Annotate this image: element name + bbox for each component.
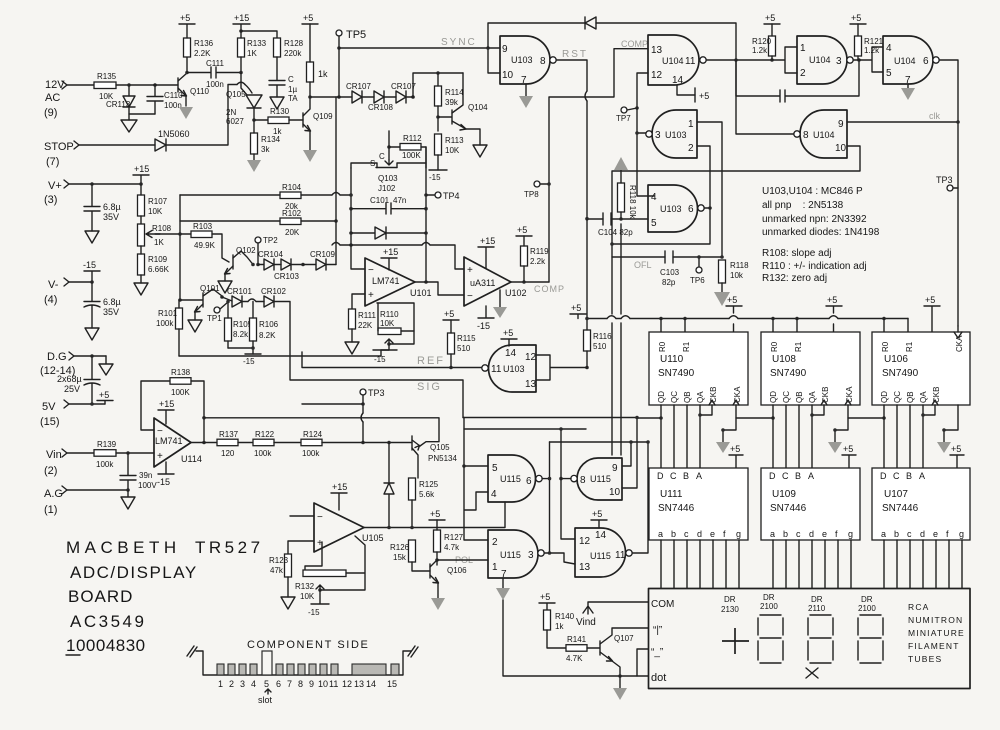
svg-text:U104: U104: [813, 130, 835, 140]
svg-text:U102: U102: [505, 288, 527, 298]
power +5 (U108 Vcc): [826, 295, 842, 332]
svg-text:QD: QD: [769, 391, 778, 403]
wire long vertical TP5 column (SIG source): [335, 97, 337, 265]
svg-text:4: 4: [651, 192, 657, 203]
svg-text:e: e: [822, 529, 827, 539]
counter U110 SN7490: [649, 332, 748, 405]
wire U103d pins 12/13: [536, 355, 587, 380]
svg-text:5: 5: [651, 218, 657, 229]
wire bottom row to uA311 +: [340, 245, 464, 269]
diode CR103: [274, 259, 299, 281]
wire + input: [352, 294, 365, 309]
wire U115a pin4: [464, 466, 488, 540]
nand U103b (mirrored): [646, 110, 697, 158]
svg-text:6: 6: [688, 204, 694, 215]
resistor R104 20k: [280, 183, 302, 211]
capacitor C110 100n: [147, 85, 183, 114]
wire U106 outputs to U107: [884, 405, 923, 468]
svg-text:+5: +5: [851, 13, 861, 23]
wire U102 output: [511, 281, 549, 283]
resistor R138 100K: [170, 368, 191, 397]
svg-text:QC: QC: [893, 391, 902, 403]
wire R101 bottom loop: [179, 355, 381, 357]
svg-text:U115: U115: [590, 551, 611, 561]
svg-text:5: 5: [492, 463, 498, 474]
svg-text:8: 8: [580, 475, 586, 486]
svg-text:A: A: [919, 471, 925, 481]
svg-text:REF: REF: [417, 355, 445, 367]
svg-text:2: 2: [229, 679, 234, 689]
svg-text:U103: U103: [511, 55, 533, 65]
svg-text:12: 12: [651, 70, 663, 81]
svg-text:82p: 82p: [662, 278, 676, 287]
svg-text:1: 1: [492, 562, 498, 573]
svg-text:c: c: [907, 529, 912, 539]
svg-text:U104: U104: [662, 56, 684, 66]
svg-text:R1: R1: [905, 341, 914, 352]
ground (V+ cap): [85, 231, 99, 243]
svg-text:OFL: OFL: [634, 260, 652, 270]
svg-text:100k: 100k: [254, 449, 272, 458]
svg-text:12: 12: [342, 679, 352, 689]
node R112 left: [387, 145, 391, 149]
resistor R120 1.2k: [752, 24, 776, 60]
label DR 2130: [721, 595, 739, 614]
svg-text:10: 10: [318, 679, 328, 689]
svg-text:C101: C101: [370, 196, 390, 205]
svg-text:a: a: [658, 529, 663, 539]
diode CR101: [227, 287, 252, 307]
JFET Q103 J102: [351, 152, 426, 193]
wire V+: [69, 183, 141, 185]
svg-text:R108: R108: [152, 224, 172, 233]
wire ground rail / dot pin: [503, 600, 648, 676]
svg-text:TP1: TP1: [207, 314, 222, 323]
ground Q104: [473, 145, 487, 157]
svg-text:13: 13: [651, 45, 663, 56]
svg-text:SN7446: SN7446: [882, 503, 919, 514]
resistor R139 100k: [67, 440, 117, 469]
ground R109: [134, 283, 148, 295]
svg-text:A: A: [808, 471, 814, 481]
resistor R123 47k: [269, 554, 292, 597]
wire U105 output row: [364, 502, 505, 528]
wire U103b pin2: [697, 146, 710, 208]
svg-text:6: 6: [526, 476, 532, 487]
wire U107 segments to display: [884, 540, 962, 588]
wire Q109 to diodes: [310, 96, 352, 98]
svg-text:CKB: CKB: [821, 387, 830, 403]
svg-text:100V: 100V: [138, 481, 157, 490]
wire "_" pin: [637, 649, 648, 676]
wire U104b out to clk column: [939, 60, 958, 326]
svg-text:10: 10: [609, 487, 621, 498]
wire U115b output to pin12 column: [561, 478, 571, 480]
wire R104 row: [180, 194, 351, 196]
node TP5/SYNC: [337, 46, 341, 50]
resistor R109 6.66K: [138, 246, 170, 283]
svg-text:-15: -15: [429, 173, 441, 182]
resistor R105 8.2k: [225, 300, 253, 348]
ground (V- cap): [85, 328, 99, 340]
svg-text:AC3549: AC3549: [70, 612, 146, 631]
svg-text:DR: DR: [811, 595, 823, 604]
testpoint TP1: [207, 302, 228, 323]
seven-segment digit 1: [758, 615, 783, 663]
svg-text:R101: R101: [158, 309, 178, 318]
svg-text:TUBES: TUBES: [908, 654, 942, 664]
svg-text:+5: +5: [540, 592, 550, 602]
wire U110 CKB to QA: [700, 405, 712, 415]
nand U115b (mirrored): [571, 458, 622, 500]
svg-text:9: 9: [838, 119, 844, 130]
diode CR107: [346, 82, 371, 103]
svg-text:SIG: SIG: [417, 381, 442, 393]
resistor R130 1k: [268, 107, 290, 136]
power +15 (U105): [331, 482, 347, 510]
svg-text:SYNC: SYNC: [441, 37, 477, 48]
wire U115a out6 loop: [542, 442, 550, 553]
wire U104a inputs: [736, 47, 797, 73]
wire 5V: [69, 403, 105, 405]
svg-text:(3): (3): [44, 194, 57, 206]
wire R0/R1 pin drops: [661, 319, 908, 333]
svg-text:1k: 1k: [273, 127, 282, 136]
wire +5 bus (R0/R1): [587, 318, 908, 320]
ground A.G: [121, 490, 135, 509]
svg-text:12: 12: [525, 352, 537, 363]
svg-text:25V: 25V: [64, 384, 80, 394]
svg-text:U103: U103: [660, 204, 682, 214]
svg-text:+5: +5: [592, 509, 602, 519]
svg-text:SN7490: SN7490: [770, 368, 807, 379]
connector outline: [196, 651, 411, 675]
svg-text:R0: R0: [658, 341, 667, 352]
transistor Q104: [438, 73, 488, 145]
svg-text:11: 11: [685, 56, 696, 67]
svg-text:g: g: [959, 529, 964, 539]
svg-text:+5: +5: [827, 295, 837, 305]
svg-text:U104: U104: [894, 56, 916, 66]
connector pins 12-14 block: [352, 664, 386, 675]
svg-text:-15: -15: [477, 321, 490, 331]
times sign below digit 2: [806, 668, 818, 678]
label DR 2110: [808, 595, 826, 613]
svg-text:100k: 100k: [302, 449, 320, 458]
power +5 (5V): [97, 390, 113, 404]
svg-text:Q109: Q109: [313, 112, 333, 121]
svg-text:R120: R120: [752, 37, 772, 46]
svg-text:5V: 5V: [42, 401, 56, 413]
wire U101 output to uA311 -: [415, 282, 464, 295]
svg-text:“_”: “_”: [651, 647, 663, 658]
wire U114 output row: [191, 442, 217, 444]
svg-text:+5: +5: [430, 509, 440, 519]
svg-text:6: 6: [276, 679, 281, 689]
svg-text:TP8: TP8: [524, 190, 539, 199]
svg-text:4: 4: [251, 679, 256, 689]
svg-text:FILAMENT: FILAMENT: [908, 641, 960, 651]
svg-text:2.2K: 2.2K: [194, 49, 211, 58]
wire U104c pin9 to clk: [847, 121, 958, 123]
wire U110 outputs to U111: [661, 405, 700, 468]
power +5 (U110 Vcc): [726, 295, 742, 332]
wire R130 to Q109: [289, 119, 303, 121]
PUT Q105 2N6027: [226, 90, 262, 126]
wire QD(U110) to SIG node: [637, 417, 661, 419]
svg-text:9: 9: [309, 679, 314, 689]
transistor Q109: [303, 97, 333, 150]
svg-text:-15: -15: [243, 357, 255, 366]
capacitor C103 82p: [660, 251, 680, 287]
svg-text:C: C: [782, 471, 789, 481]
svg-text:R0: R0: [881, 341, 890, 352]
svg-text:R136: R136: [194, 39, 214, 48]
svg-text:R1: R1: [794, 341, 803, 352]
svg-text:R139: R139: [97, 440, 117, 449]
wire R138 to output column: [191, 381, 204, 443]
svg-text:NUMITRON: NUMITRON: [908, 615, 963, 625]
wire CR109 to integrator column: [326, 264, 336, 266]
wire U103c pin5 / C104: [587, 218, 648, 220]
svg-text:CR103: CR103: [274, 272, 299, 281]
svg-text:R114: R114: [445, 88, 464, 97]
svg-text:10K: 10K: [300, 592, 315, 601]
wire U103b pin1: [697, 122, 722, 257]
nand U103c: [648, 185, 704, 232]
svg-text:11: 11: [491, 364, 502, 375]
svg-text:100k: 100k: [156, 319, 174, 328]
svg-text:C: C: [288, 75, 294, 84]
node R133 bottom: [239, 71, 243, 75]
svg-text:+5: +5: [444, 309, 454, 319]
svg-text:15k: 15k: [393, 553, 407, 562]
svg-text:13: 13: [354, 679, 364, 689]
wire minus input to top row: [351, 245, 365, 269]
wire U104a pin14 to +5: [677, 85, 695, 95]
diode 1N5060: [155, 129, 190, 151]
resistor R125 5.6k: [409, 478, 439, 528]
wire U104z output: [706, 59, 736, 61]
svg-text:DR: DR: [724, 595, 736, 604]
svg-text:TP3: TP3: [368, 388, 385, 398]
svg-text:V-: V-: [48, 279, 59, 291]
svg-text:A: A: [696, 471, 702, 481]
resistor R121 1.2k: [855, 24, 884, 60]
svg-text:TA: TA: [288, 94, 298, 103]
svg-text:9: 9: [502, 44, 508, 55]
svg-text:+15: +15: [480, 236, 495, 246]
svg-text:39k: 39k: [445, 98, 459, 107]
svg-text:13: 13: [579, 562, 591, 573]
svg-text:13: 13: [525, 379, 537, 390]
svg-text:35V: 35V: [103, 212, 119, 222]
capacitor C111 100n: [187, 59, 241, 89]
svg-text:10004830: 10004830: [66, 636, 146, 655]
svg-text:8.2k: 8.2k: [233, 330, 249, 339]
wire R102 row: [180, 220, 336, 222]
wire REF: [302, 352, 482, 368]
connector pins 1-4: [217, 664, 257, 675]
wire top loop with diode: [488, 23, 736, 60]
svg-text:R110 : +/- indication adj: R110 : +/- indication adj: [762, 261, 867, 272]
resistor R137 120: [217, 430, 239, 458]
testpoint TP3: [936, 175, 958, 191]
testpoint TP4: [426, 191, 460, 201]
svg-text:10K: 10K: [380, 319, 395, 328]
svg-text:c: c: [684, 529, 689, 539]
diode (JFET cell): [351, 227, 426, 239]
svg-text:12: 12: [579, 536, 591, 547]
svg-text:14: 14: [595, 530, 607, 541]
svg-text:R113: R113: [445, 136, 464, 145]
svg-text:LM741: LM741: [372, 276, 400, 286]
wire SYNC: [339, 47, 488, 49]
svg-text:QC: QC: [782, 391, 791, 403]
svg-text:CKA: CKA: [733, 386, 742, 403]
svg-text:CR107: CR107: [346, 82, 371, 91]
diode CR113: [106, 85, 135, 114]
node C103 right: [720, 255, 724, 259]
power +5 (1k): [302, 13, 318, 24]
counter U106 SN7490: [872, 332, 970, 405]
diode CR102: [261, 287, 286, 307]
svg-text:U108: U108: [772, 354, 796, 365]
svg-text:2130: 2130: [721, 605, 739, 614]
connector pins 6-11: [276, 664, 338, 675]
svg-text:QD: QD: [880, 391, 889, 403]
display box: [649, 589, 971, 689]
diode CR109: [303, 250, 335, 270]
capacitor 6.8u 35V (V-): [84, 282, 121, 328]
wire STOP to PUT gate: [166, 85, 252, 146]
wire CKA stub / gray arrow U109: [828, 418, 848, 453]
svg-text:(1): (1): [44, 504, 57, 516]
diode CR107b: [391, 82, 416, 103]
svg-text:6: 6: [923, 56, 929, 67]
svg-text:4.7k: 4.7k: [444, 543, 460, 552]
resistor R122 100k: [253, 430, 275, 458]
svg-text:C110: C110: [164, 91, 183, 100]
svg-text:d: d: [920, 529, 925, 539]
nand U115c: [575, 528, 632, 577]
svg-text:D.G: D.G: [47, 351, 67, 363]
svg-text:10: 10: [502, 70, 514, 81]
svg-text:g: g: [736, 529, 741, 539]
wire R103 to Q102 base: [212, 234, 229, 262]
wire U114 feedback loop: [141, 381, 170, 430]
svg-text:1k: 1k: [555, 622, 564, 631]
wire OFL loop: [612, 208, 722, 257]
svg-text:+: +: [467, 265, 473, 276]
svg-text:all pnp : 2N5138: all pnp : 2N5138: [762, 200, 844, 211]
svg-text:R130: R130: [270, 107, 290, 116]
svg-text:R118: R118: [730, 261, 749, 270]
label DR 2100b: [858, 595, 876, 613]
svg-text:10: 10: [835, 143, 847, 154]
svg-text:c: c: [796, 529, 801, 539]
svg-text:D: D: [657, 471, 664, 481]
nand U104b: [883, 36, 939, 86]
port STOP (7): [44, 141, 79, 168]
node CR101 line: [220, 295, 224, 299]
svg-text:+5: +5: [699, 91, 709, 101]
svg-text:(7): (7): [46, 156, 59, 168]
wire U105 - input: [290, 515, 314, 517]
plus sign tube: [722, 628, 749, 654]
resistor R115 510: [448, 320, 477, 368]
label slot: [258, 689, 273, 705]
resistor R116 510: [584, 319, 613, 368]
testpoint TP7: [616, 107, 637, 123]
power +5 (R120): [764, 13, 780, 24]
node TP7: [635, 106, 639, 110]
svg-text:R124: R124: [303, 430, 323, 439]
svg-text:SN7490: SN7490: [658, 368, 695, 379]
wire R139 to U114: [116, 452, 154, 454]
ground Q102: [218, 281, 232, 293]
svg-text:(15): (15): [40, 416, 60, 428]
svg-text:3: 3: [528, 550, 534, 561]
svg-text:R135: R135: [97, 72, 117, 81]
svg-text:QB: QB: [683, 391, 692, 403]
ground Q109 (gray): [303, 150, 317, 162]
svg-text:R110: R110: [380, 310, 399, 319]
svg-text:U104: U104: [809, 55, 831, 65]
wire left rail JFET cell: [350, 168, 352, 245]
wire R133 to PUT anode: [241, 73, 247, 96]
wire U103c output: [704, 207, 710, 209]
ground U102 (gray): [493, 290, 507, 318]
power +5 (R127): [429, 509, 445, 520]
svg-text:7: 7: [501, 569, 507, 580]
decoder U109 SN7446: [761, 468, 860, 540]
node U104a output: [857, 58, 861, 62]
port 12V AC (9): [44, 79, 67, 119]
svg-text:14: 14: [505, 348, 517, 359]
svg-text:U114: U114: [181, 454, 202, 464]
svg-text:U109: U109: [772, 489, 796, 500]
svg-text:1.2k: 1.2k: [752, 46, 768, 55]
ground Q110 (gray): [179, 107, 193, 119]
wire U103b out / pin12 feedback column: [637, 73, 648, 133]
nand U104c (mirrored): [794, 110, 847, 158]
svg-text:+: +: [157, 451, 163, 462]
svg-text:5: 5: [264, 679, 269, 689]
svg-text:3k: 3k: [261, 145, 270, 154]
svg-text:DR: DR: [861, 595, 873, 604]
wire R124 to Q105 base: [322, 442, 412, 444]
svg-text:+15: +15: [332, 482, 347, 492]
wire U104c pin10 loop: [612, 146, 860, 244]
ground D.G: [99, 356, 113, 375]
diode CR104: [258, 250, 283, 270]
power -15 (U102): [477, 306, 494, 331]
svg-text:R109: R109: [148, 255, 168, 264]
wire CR113/C110 join: [129, 114, 155, 120]
resistor R126 15k: [390, 540, 430, 571]
svg-text:(4): (4): [44, 294, 57, 306]
svg-text:R123: R123: [269, 556, 289, 565]
svg-text:Q106: Q106: [447, 566, 467, 575]
port A.G (1): [44, 486, 67, 516]
svg-text:b: b: [783, 529, 788, 539]
svg-text:D: D: [880, 471, 887, 481]
wire R0 bus feed columns: [612, 224, 621, 455]
wire right rail JFET cell: [425, 147, 427, 282]
diode (U105 output clamp): [384, 443, 394, 529]
resistor R107 10K: [138, 184, 168, 224]
